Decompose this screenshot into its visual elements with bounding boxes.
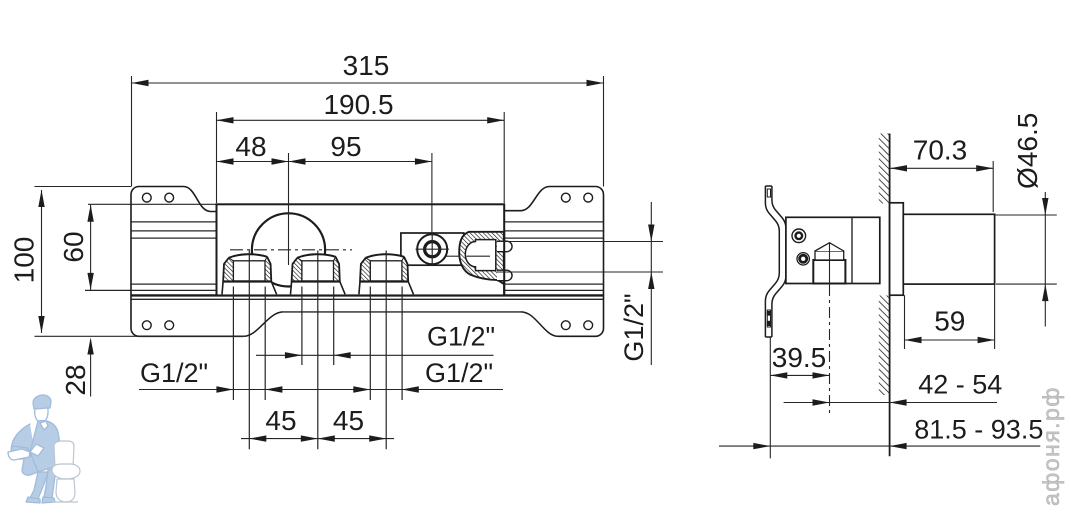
right bracket plate outline (504, 187, 603, 337)
tap axis line solid (829, 244, 831, 286)
svg-text:афоня.рф: афоня.рф (1038, 386, 1064, 506)
svg-text:45: 45 (333, 405, 364, 436)
nut 3 pipe wall lines (369, 287, 371, 401)
nut 2 axis line (317, 251, 319, 450)
dim G1/2 port extension top (497, 241, 663, 243)
wire flange S-curve left (244, 312, 284, 336)
fitting centerline left segment (446, 255, 459, 257)
bracket face extension line (769, 337, 771, 458)
hex nut 3 (right, G1/2) (359, 254, 414, 294)
svg-text:315: 315 (343, 50, 390, 81)
leader line upper G1/2 (256, 354, 494, 356)
dome centerline dash-dot (230, 249, 352, 251)
tap adapter lower rect (813, 260, 845, 284)
dim 28 line with up arrow (90, 340, 92, 397)
svg-text:95: 95 (330, 131, 361, 162)
dim 39.5 line (770, 374, 829, 376)
watermark plumber with toilet (8, 395, 80, 503)
dim 59 extension left (904, 295, 906, 349)
svg-text:G1/2": G1/2" (427, 322, 495, 352)
dim 315 extension right (603, 76, 605, 187)
flange collar (890, 203, 904, 295)
tap adapter upper band (815, 251, 844, 260)
dim 81.5-93.5 line (719, 445, 1040, 447)
hex nut 2 (middle, G1/2) (291, 254, 346, 294)
wire rail line 4 (131, 283, 604, 285)
tap adapter roof triangle (815, 243, 844, 251)
dim 190.5 extension right (503, 112, 505, 203)
svg-text:28: 28 (60, 364, 91, 395)
wire rail line 3 (131, 237, 604, 239)
svg-text:G1/2": G1/2" (425, 358, 493, 388)
wire rail line 5 (85, 289, 604, 291)
nut 1 axis line (248, 251, 250, 450)
screw crosshair vertical segment (431, 234, 433, 265)
dim 45 line first (241, 438, 394, 440)
dim 315 extension left (131, 76, 133, 187)
wire flange bottom middle line (283, 311, 521, 313)
dim 100 extension top (35, 186, 132, 188)
dim G1/2 vertical line (650, 202, 652, 365)
cartridge dome circle (252, 213, 325, 286)
screw head lower (797, 253, 809, 265)
dim 59 line (905, 339, 995, 341)
hex nut 1 (left, G1/2) (222, 254, 277, 294)
clip upper (497, 241, 512, 252)
svg-text:G1/2": G1/2" (619, 293, 649, 361)
screw outer circle (417, 234, 447, 264)
svg-text:59: 59 (934, 306, 965, 337)
dim 48 line (217, 161, 289, 163)
svg-text:42 - 54: 42 - 54 (918, 370, 1002, 400)
clip lower (497, 270, 512, 281)
dim 190.5 extension left (216, 112, 218, 203)
left bracket plate outline (131, 187, 244, 337)
left bracket hole top 2 (165, 193, 174, 202)
leader line lower G1/2 (139, 389, 503, 391)
wire body bottom thick line (131, 294, 604, 296)
svg-text:G1/2": G1/2" (140, 358, 208, 388)
right bracket hole top 1 (561, 193, 570, 202)
dim 100 extension bottom (35, 335, 244, 337)
dim 70.3 line (890, 167, 993, 169)
screw crosshair horizontal (416, 248, 449, 250)
left bracket hole top 1 (142, 193, 151, 202)
svg-text:39.5: 39.5 (772, 342, 827, 373)
wall hatch lower (879, 296, 890, 396)
dim 42-54 line (784, 402, 997, 404)
svg-text:60: 60 (58, 231, 89, 262)
dim 190.5 line (217, 119, 505, 121)
dim diameter 46.5 extension top (995, 214, 1057, 216)
dim G1/2 port extension bottom (497, 271, 663, 273)
dim diameter 46.5 extension bottom (996, 283, 1057, 285)
wall hatch upper (879, 134, 890, 204)
valve body block (786, 217, 880, 283)
dim diameter 46.5 line (1044, 192, 1046, 327)
mixer body rectangle (217, 204, 505, 295)
outlet fitting outline (459, 232, 504, 284)
dim 95 extension right (screw axis) (431, 153, 433, 234)
screw bold ring (425, 242, 440, 257)
nut 3 axis line (385, 251, 387, 450)
svg-text:190.5: 190.5 (323, 89, 393, 120)
protruding cylinder (903, 214, 994, 284)
side bracket bottom slot (767, 310, 770, 327)
body right edge over clips (503, 231, 505, 295)
nut 1 pipe wall lines (232, 287, 234, 401)
tap axis extension dash-dot (829, 285, 831, 414)
wire rail line 1 (131, 221, 604, 223)
svg-text:81.5 - 93.5: 81.5 - 93.5 (914, 414, 1043, 444)
wire rail top edge line (88, 203, 504, 205)
dim 45 second arrows (318, 435, 335, 441)
dim 315 line (132, 82, 604, 84)
right bracket hole bottom 1 (561, 321, 570, 330)
left bracket hole bottom 2 (165, 321, 174, 330)
svg-text:100: 100 (9, 237, 40, 284)
fitting centerline inner segment (467, 255, 491, 257)
wire rail line 2 (131, 230, 604, 232)
dim 48-95 extension middle (dome axis) (288, 153, 290, 265)
dim 95 line (289, 161, 432, 163)
svg-text:70.3: 70.3 (913, 135, 968, 166)
wall face line (889, 134, 891, 457)
side bracket Z-profile (765, 186, 786, 337)
outlet fitting cavity (arched port) (465, 240, 495, 271)
screw head upper (792, 229, 806, 243)
dim 100 line (41, 190, 43, 333)
valve block divider (851, 217, 853, 283)
dim 70.3 extension right (992, 161, 994, 212)
dim 60 line (90, 205, 92, 290)
side bracket top slot (767, 189, 770, 197)
nut 2 pipe wall lines (301, 287, 303, 366)
right bracket hole top 2 (584, 193, 593, 202)
wire flange top line (131, 298, 604, 300)
right bracket hole bottom 2 (584, 321, 593, 330)
left bracket hole bottom 1 (142, 321, 151, 330)
outlet fitting hatched body (459, 232, 504, 284)
dim 59 extension right (994, 284, 996, 349)
svg-text:48: 48 (235, 131, 266, 162)
svg-text:Ø46.5: Ø46.5 (1012, 113, 1043, 189)
screw box (401, 233, 464, 265)
wire flange S-curve right (521, 312, 558, 336)
svg-text:45: 45 (265, 405, 296, 436)
